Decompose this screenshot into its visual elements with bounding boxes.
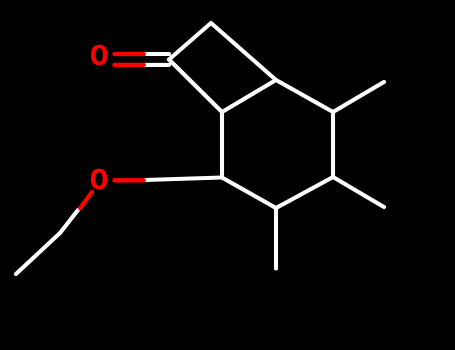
svg-text:O: O (90, 40, 109, 75)
